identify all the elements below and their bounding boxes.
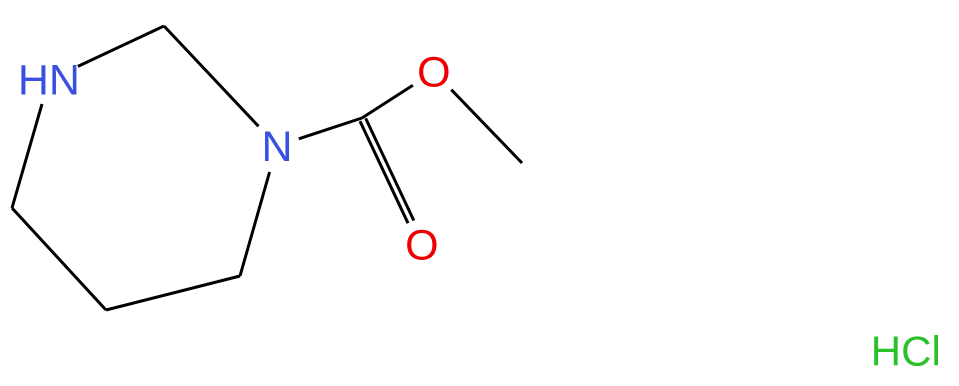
ring bond N3-C4 <box>240 172 270 276</box>
bond C7-O ester <box>362 85 413 118</box>
ring bond C5-C6 <box>12 208 106 310</box>
bond O-CH3 methyl <box>451 90 522 163</box>
double bond C7=O carbonyl <box>366 118 414 220</box>
svg-text:O: O <box>405 221 438 269</box>
svg-text:HN: HN <box>18 57 80 105</box>
ring bond C6-N1(H) <box>12 104 42 208</box>
svg-text:HCl: HCl <box>871 328 941 375</box>
bond N3-C7 carbamate <box>299 118 362 139</box>
svg-text:O: O <box>417 49 450 97</box>
ring bond N1(H)-C2 <box>78 26 164 66</box>
ring bond C2-N3 <box>164 26 259 126</box>
svg-text:N: N <box>261 123 292 171</box>
ring bond C4-C5 <box>106 276 240 310</box>
